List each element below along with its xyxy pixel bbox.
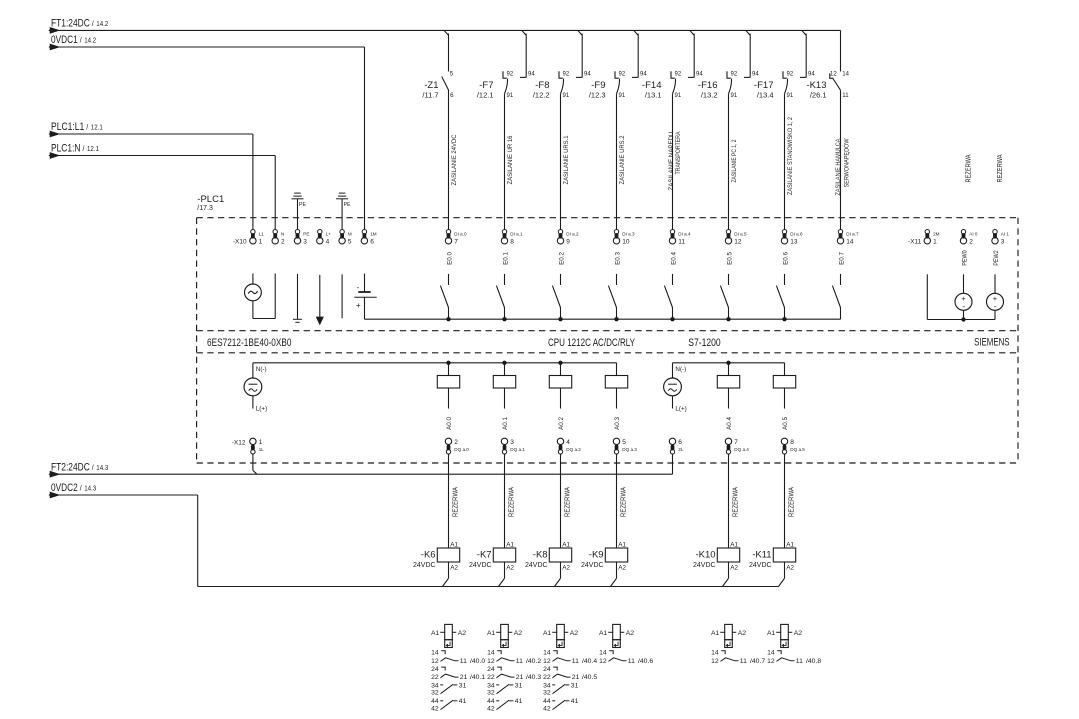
- svg-text:-X10: -X10: [233, 238, 247, 245]
- svg-text:/17.3: /17.3: [197, 205, 213, 212]
- svg-text:-: -: [357, 283, 360, 292]
- svg-text:14.3: 14.3: [96, 465, 108, 472]
- svg-text:/: /: [83, 146, 85, 153]
- svg-text:14.3: 14.3: [84, 486, 96, 493]
- svg-text:DI a.7: DI a.7: [846, 232, 859, 237]
- svg-text:DQ a.5: DQ a.5: [790, 447, 805, 452]
- svg-text:REZERWA: REZERWA: [508, 487, 515, 517]
- svg-text:94: 94: [640, 71, 647, 77]
- svg-text:N(-): N(-): [675, 366, 686, 373]
- svg-text:0VDC1: 0VDC1: [51, 34, 78, 46]
- svg-text:4: 4: [566, 439, 570, 446]
- svg-text:A1: A1: [543, 630, 552, 637]
- svg-text:11: 11: [678, 238, 685, 245]
- svg-text:A1: A1: [431, 630, 440, 637]
- svg-text:L(+): L(+): [256, 405, 267, 412]
- svg-text:-K8: -K8: [533, 550, 548, 561]
- svg-text:TRANSPORTERA: TRANSPORTERA: [675, 131, 682, 175]
- svg-text:91: 91: [563, 93, 570, 99]
- svg-text:A2: A2: [506, 565, 514, 572]
- svg-text:5: 5: [348, 238, 352, 245]
- svg-text:A1: A1: [506, 541, 514, 548]
- svg-text:-: -: [962, 301, 965, 311]
- svg-text:1M: 1M: [370, 232, 377, 237]
- svg-text:A2: A2: [618, 565, 626, 572]
- svg-text:PLC1:N: PLC1:N: [51, 143, 81, 155]
- svg-text:DI a.4: DI a.4: [678, 232, 691, 237]
- svg-text:24VDC: 24VDC: [749, 562, 772, 569]
- svg-text:94: 94: [808, 71, 815, 77]
- svg-text:FT2:24DC: FT2:24DC: [51, 461, 90, 473]
- svg-text:91: 91: [787, 93, 794, 99]
- svg-text:94: 94: [528, 71, 535, 77]
- svg-text:22: 22: [543, 674, 551, 681]
- svg-text:1: 1: [259, 439, 263, 446]
- svg-text:A1: A1: [450, 541, 458, 548]
- svg-text:/11.7: /11.7: [422, 90, 438, 99]
- svg-text:A2: A2: [626, 630, 635, 637]
- svg-text:DQ a.4: DQ a.4: [734, 447, 749, 452]
- svg-text:AI 1: AI 1: [1001, 232, 1010, 237]
- svg-text:11: 11: [572, 658, 579, 665]
- svg-text:L1: L1: [259, 232, 265, 237]
- svg-text:31: 31: [459, 682, 467, 689]
- svg-text:11: 11: [740, 658, 747, 665]
- svg-text:PE: PE: [344, 202, 351, 208]
- svg-text:31: 31: [571, 682, 579, 689]
- svg-text:-K7: -K7: [477, 550, 492, 561]
- svg-text:SERWONAPĘDÓW: SERWONAPĘDÓW: [842, 138, 851, 187]
- svg-text:/40.3: /40.3: [526, 674, 541, 681]
- svg-text:14: 14: [846, 238, 854, 245]
- svg-text:DI a.3: DI a.3: [622, 232, 635, 237]
- svg-text:SIEMENS: SIEMENS: [974, 337, 1009, 349]
- svg-text:12: 12: [767, 658, 775, 665]
- svg-text:22: 22: [487, 674, 495, 681]
- svg-text:21: 21: [516, 674, 524, 681]
- svg-text:DQ a.1: DQ a.1: [510, 447, 525, 452]
- svg-text:A2: A2: [730, 565, 738, 572]
- svg-text:A1: A1: [711, 630, 720, 637]
- svg-text:11: 11: [460, 658, 467, 665]
- svg-text:31: 31: [515, 682, 523, 689]
- svg-text:REZERWA: REZERWA: [620, 487, 627, 517]
- svg-text:21: 21: [572, 674, 580, 681]
- svg-text:14: 14: [543, 650, 551, 657]
- svg-text:14.2: 14.2: [84, 38, 96, 45]
- svg-text:5: 5: [622, 439, 626, 446]
- svg-text:PE: PE: [299, 202, 306, 208]
- svg-text:PE: PE: [303, 232, 309, 237]
- svg-text:ZASILANIE URS.2: ZASILANIE URS.2: [619, 135, 626, 184]
- svg-text:12: 12: [543, 658, 551, 665]
- svg-text:A2: A2: [570, 630, 579, 637]
- svg-text:1L: 1L: [259, 447, 265, 452]
- svg-text:24: 24: [543, 666, 551, 673]
- svg-text:E0.6: E0.6: [782, 251, 789, 264]
- svg-text:A0.3: A0.3: [614, 416, 621, 429]
- svg-text:ZASILANIE URS.1: ZASILANIE URS.1: [563, 135, 570, 184]
- svg-text:-K10: -K10: [696, 550, 716, 561]
- svg-text:A1: A1: [767, 630, 776, 637]
- svg-text:A1: A1: [599, 630, 608, 637]
- svg-text:/40.4: /40.4: [582, 658, 597, 665]
- svg-text:/12.1: /12.1: [477, 90, 494, 99]
- svg-text:42: 42: [543, 706, 551, 713]
- svg-text:/40.5: /40.5: [582, 674, 597, 681]
- svg-text:34: 34: [431, 682, 439, 689]
- svg-text:34: 34: [543, 682, 551, 689]
- svg-text:A2: A2: [514, 630, 523, 637]
- svg-text:E0.2: E0.2: [558, 251, 565, 264]
- svg-text:12: 12: [487, 658, 495, 665]
- svg-text:2: 2: [454, 439, 458, 446]
- svg-text:L(+): L(+): [675, 405, 686, 412]
- svg-text:92: 92: [507, 71, 514, 77]
- svg-text:/40.2: /40.2: [526, 658, 541, 665]
- svg-text:ZASILANIE PC 1, 2: ZASILANIE PC 1, 2: [731, 139, 738, 182]
- svg-text:ZASILANIE HAMULCA: ZASILANIE HAMULCA: [835, 138, 842, 196]
- svg-text:2: 2: [281, 238, 285, 245]
- svg-text:94: 94: [584, 71, 591, 77]
- svg-text:91: 91: [507, 93, 514, 99]
- svg-text:41: 41: [459, 698, 467, 705]
- svg-text:11: 11: [796, 658, 803, 665]
- svg-text:41: 41: [571, 698, 579, 705]
- svg-text:32: 32: [431, 690, 439, 697]
- svg-text:A2: A2: [458, 630, 467, 637]
- svg-text:91: 91: [731, 93, 738, 99]
- svg-text:AI 0: AI 0: [969, 232, 978, 237]
- svg-text:-K6: -K6: [421, 550, 436, 561]
- svg-text:REZERWA: REZERWA: [452, 487, 459, 517]
- svg-text:11: 11: [842, 93, 849, 99]
- svg-text:2: 2: [969, 238, 973, 245]
- svg-text:14.2: 14.2: [96, 21, 108, 28]
- svg-text:REZERWA: REZERWA: [788, 487, 795, 517]
- svg-text:A2: A2: [794, 630, 803, 637]
- svg-text:-X11: -X11: [908, 238, 922, 245]
- svg-text:42: 42: [487, 706, 495, 713]
- svg-text:14: 14: [431, 650, 439, 657]
- svg-text:1: 1: [933, 238, 937, 245]
- svg-text:6ES7212-1BE40-0XB0: 6ES7212-1BE40-0XB0: [207, 337, 292, 349]
- svg-text:3: 3: [510, 439, 514, 446]
- svg-text:44: 44: [543, 698, 551, 705]
- svg-text:24: 24: [487, 666, 495, 673]
- svg-text:A1: A1: [730, 541, 738, 548]
- svg-text:DI a.5: DI a.5: [734, 232, 747, 237]
- svg-text:24: 24: [431, 666, 439, 673]
- svg-text:DI a.2: DI a.2: [566, 232, 579, 237]
- svg-text:/13.1: /13.1: [645, 90, 662, 99]
- svg-text:E0.4: E0.4: [670, 251, 677, 264]
- svg-text:/13.4: /13.4: [757, 90, 774, 99]
- svg-text:24VDC: 24VDC: [469, 562, 492, 569]
- svg-text:-K9: -K9: [589, 550, 604, 561]
- svg-text:12: 12: [734, 238, 742, 245]
- svg-text:7: 7: [454, 238, 458, 245]
- svg-text:A2: A2: [450, 565, 458, 572]
- svg-text:DI a.6: DI a.6: [790, 232, 803, 237]
- svg-text:13: 13: [790, 238, 798, 245]
- svg-text:44: 44: [431, 698, 439, 705]
- svg-text:A0.4: A0.4: [726, 416, 733, 429]
- svg-text:11: 11: [628, 658, 635, 665]
- svg-text:12.1: 12.1: [87, 146, 99, 153]
- svg-text:PEW2: PEW2: [993, 250, 1000, 266]
- svg-text:/40.0: /40.0: [470, 658, 485, 665]
- svg-text:FT1:24DC: FT1:24DC: [51, 18, 90, 30]
- svg-text:/40.7: /40.7: [750, 658, 765, 665]
- svg-text:A0.5: A0.5: [782, 416, 789, 429]
- svg-text:14: 14: [767, 650, 775, 657]
- svg-text:0VDC2: 0VDC2: [51, 482, 78, 494]
- svg-text:24VDC: 24VDC: [525, 562, 548, 569]
- svg-text:DQ a.2: DQ a.2: [566, 447, 581, 452]
- svg-text:21: 21: [460, 674, 468, 681]
- svg-text:/12.2: /12.2: [533, 90, 550, 99]
- svg-text:DI a.0: DI a.0: [454, 232, 467, 237]
- svg-text:A1: A1: [618, 541, 626, 548]
- svg-text:24VDC: 24VDC: [693, 562, 716, 569]
- svg-text:-K11: -K11: [752, 550, 771, 561]
- svg-text:A2: A2: [786, 565, 794, 572]
- svg-text:ZASILANIE UR 16: ZASILANIE UR 16: [507, 135, 514, 184]
- svg-text:/: /: [92, 465, 94, 472]
- svg-text:/26.1: /26.1: [810, 90, 827, 99]
- svg-text:92: 92: [731, 71, 738, 77]
- svg-text:E0.0: E0.0: [446, 251, 453, 264]
- svg-text:A1: A1: [786, 541, 794, 548]
- svg-text:A2: A2: [738, 630, 747, 637]
- svg-text:34: 34: [487, 682, 495, 689]
- svg-text:6: 6: [370, 238, 374, 245]
- svg-text:/40.1: /40.1: [470, 674, 485, 681]
- svg-text:REZERWA: REZERWA: [564, 487, 571, 517]
- svg-text:N(-): N(-): [256, 366, 267, 373]
- svg-text:PEW0: PEW0: [961, 250, 968, 266]
- svg-text:A1: A1: [562, 541, 570, 548]
- svg-text:L+: L+: [326, 232, 332, 237]
- svg-text:92: 92: [563, 71, 570, 77]
- svg-text:92: 92: [675, 71, 682, 77]
- svg-text:94: 94: [696, 71, 703, 77]
- svg-text:32: 32: [487, 690, 495, 697]
- svg-text:A2: A2: [562, 565, 570, 572]
- svg-text:24VDC: 24VDC: [413, 562, 436, 569]
- svg-text:3: 3: [303, 238, 307, 245]
- svg-text:-: -: [994, 301, 997, 311]
- svg-text:14: 14: [599, 650, 607, 657]
- svg-text:-X12: -X12: [232, 440, 246, 447]
- svg-text:12: 12: [711, 658, 719, 665]
- svg-text:14: 14: [842, 71, 849, 77]
- svg-text:/40.8: /40.8: [806, 658, 821, 665]
- svg-text:22: 22: [431, 674, 439, 681]
- svg-text:A1: A1: [487, 630, 496, 637]
- svg-text:44: 44: [487, 698, 495, 705]
- svg-text:ZASILANIE STANOWISKO 1, 2: ZASILANIE STANOWISKO 1, 2: [787, 117, 794, 195]
- svg-text:7: 7: [734, 439, 738, 446]
- svg-text:DI a.1: DI a.1: [510, 232, 523, 237]
- svg-text:+: +: [356, 301, 361, 310]
- svg-text:/: /: [92, 21, 94, 28]
- svg-text:N: N: [281, 232, 284, 237]
- svg-text:3: 3: [1001, 238, 1005, 245]
- svg-text:/: /: [80, 486, 82, 493]
- svg-text:6: 6: [678, 439, 682, 446]
- svg-text:CPU 1212C AC/DC/RLY: CPU 1212C AC/DC/RLY: [548, 337, 635, 349]
- svg-text:91: 91: [619, 93, 626, 99]
- svg-text:E0.5: E0.5: [726, 251, 733, 264]
- svg-text:4: 4: [326, 238, 330, 245]
- svg-text:PLC1:L1: PLC1:L1: [51, 121, 84, 133]
- svg-text:2M: 2M: [933, 232, 940, 237]
- svg-text:A0.2: A0.2: [558, 416, 565, 429]
- svg-text:DQ a.3: DQ a.3: [622, 447, 637, 452]
- svg-text:8: 8: [510, 238, 514, 245]
- svg-text:E0.7: E0.7: [838, 251, 845, 264]
- svg-text:2L: 2L: [678, 447, 684, 452]
- svg-text:REZERWA: REZERWA: [965, 154, 972, 182]
- svg-text:/: /: [80, 38, 82, 45]
- svg-text:E0.1: E0.1: [502, 251, 509, 264]
- svg-text:REZERWA: REZERWA: [732, 487, 739, 517]
- svg-text:10: 10: [622, 238, 630, 245]
- svg-text:8: 8: [790, 439, 794, 446]
- svg-text:E0.3: E0.3: [614, 251, 621, 264]
- svg-text:14: 14: [487, 650, 495, 657]
- svg-text:12: 12: [431, 658, 439, 665]
- svg-text:-PLC1: -PLC1: [197, 194, 224, 205]
- svg-text:41: 41: [515, 698, 523, 705]
- svg-text:REZERWA: REZERWA: [997, 154, 1004, 182]
- svg-text:12: 12: [599, 658, 607, 665]
- svg-text:92: 92: [787, 71, 794, 77]
- svg-text:M: M: [348, 232, 352, 237]
- svg-text:12: 12: [830, 71, 837, 77]
- svg-text:42: 42: [431, 706, 439, 713]
- svg-text:A0.1: A0.1: [502, 416, 509, 429]
- svg-text:9: 9: [566, 238, 570, 245]
- svg-text:/40.6: /40.6: [638, 658, 653, 665]
- svg-text:DQ a.0: DQ a.0: [454, 447, 469, 452]
- svg-text:12.1: 12.1: [91, 125, 103, 132]
- svg-text:94: 94: [752, 71, 759, 77]
- svg-text:1: 1: [259, 238, 263, 245]
- svg-text:S7-1200: S7-1200: [688, 337, 720, 349]
- svg-text:/13.2: /13.2: [701, 90, 718, 99]
- svg-text:11: 11: [516, 658, 523, 665]
- svg-text:91: 91: [675, 93, 682, 99]
- svg-text:ZASILANIE 24VDC: ZASILANIE 24VDC: [451, 134, 458, 185]
- svg-text:92: 92: [619, 71, 626, 77]
- svg-text:/: /: [86, 125, 88, 132]
- svg-text:14: 14: [711, 650, 719, 657]
- svg-text:A0.0: A0.0: [446, 416, 453, 429]
- svg-text:24VDC: 24VDC: [581, 562, 604, 569]
- svg-text:32: 32: [543, 690, 551, 697]
- svg-text:/12.3: /12.3: [589, 90, 606, 99]
